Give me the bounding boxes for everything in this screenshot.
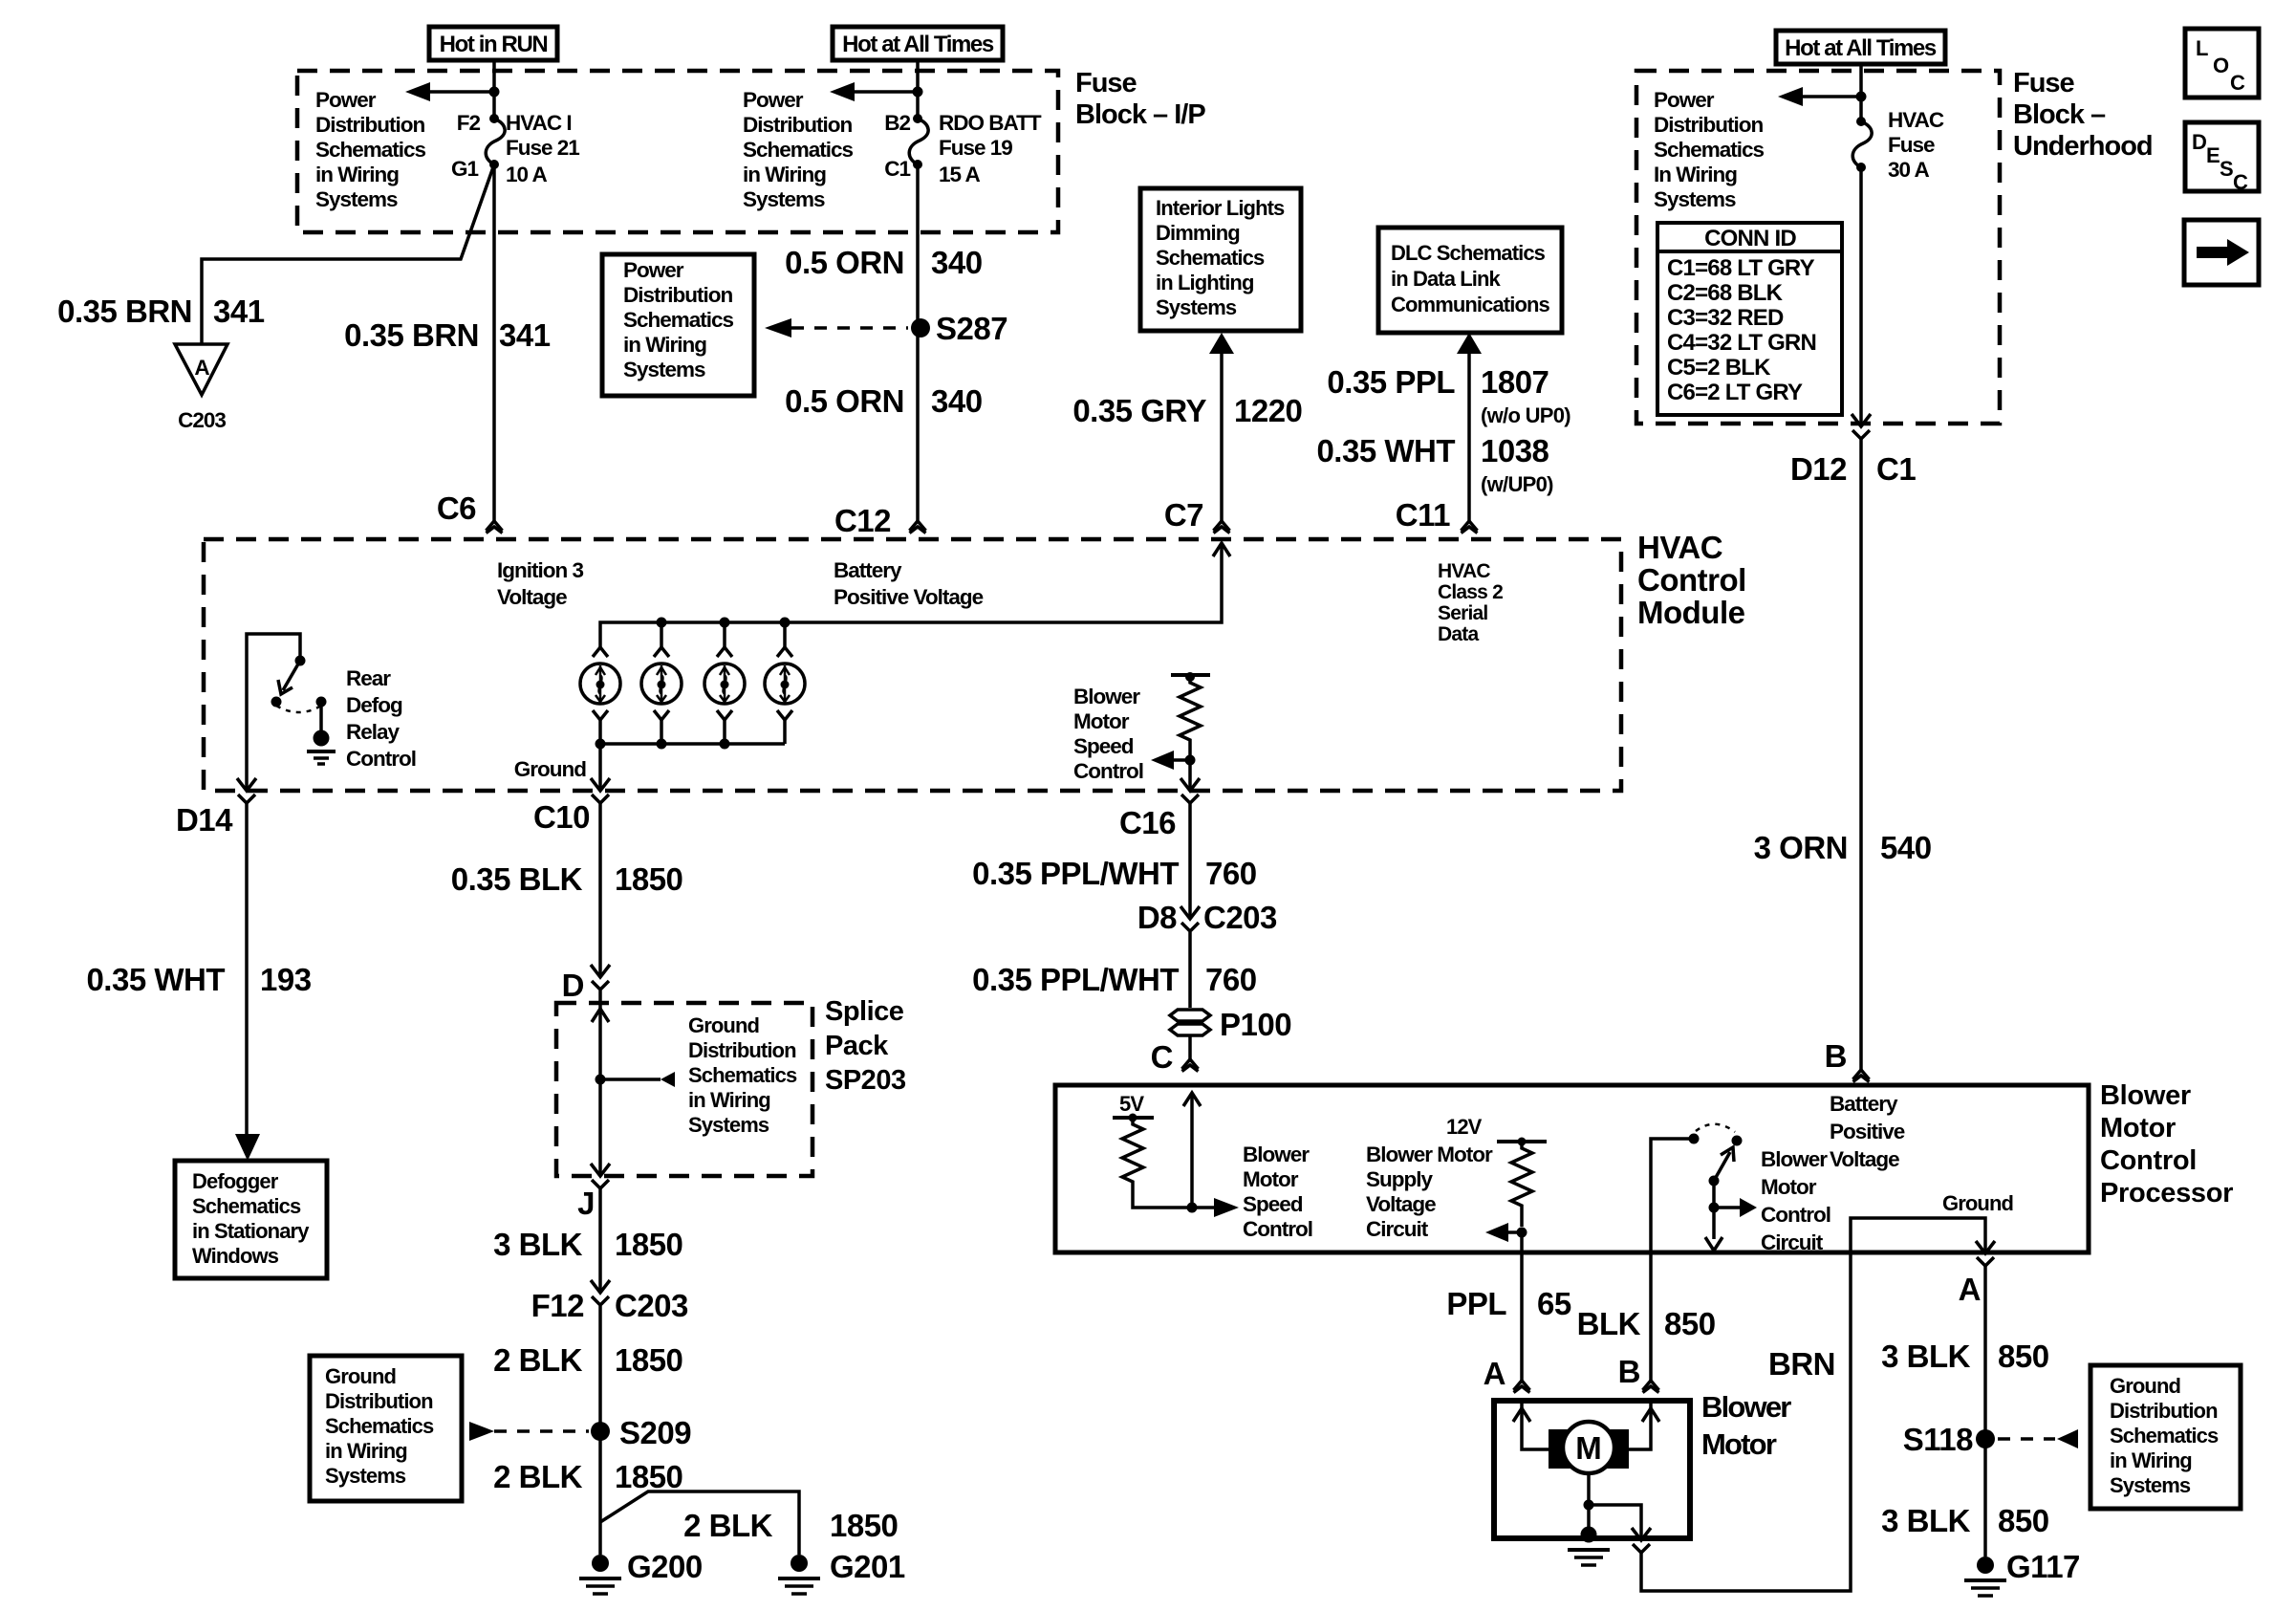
node bbox=[1517, 1228, 1527, 1238]
svg-text:340: 340 bbox=[931, 383, 983, 419]
svg-text:C6=2 LT GRY: C6=2 LT GRY bbox=[1667, 380, 1803, 405]
svg-text:Power: Power bbox=[623, 258, 684, 282]
wire down from hot box bbox=[1859, 64, 1863, 121]
svg-text:C: C bbox=[1151, 1039, 1173, 1075]
svg-text:Ground: Ground bbox=[688, 1013, 759, 1037]
wire through splice pack bbox=[598, 991, 602, 1176]
connector D12 C1 bbox=[1852, 414, 1871, 439]
svg-text:J: J bbox=[577, 1186, 595, 1221]
svg-text:C12: C12 bbox=[834, 503, 891, 538]
svg-text:0.35 PPL/WHT: 0.35 PPL/WHT bbox=[972, 856, 1179, 891]
svg-text:Blower: Blower bbox=[1761, 1147, 1828, 1171]
svg-text:Motor: Motor bbox=[1701, 1427, 1777, 1461]
svg-text:850: 850 bbox=[1664, 1306, 1716, 1341]
svg-text:HVAC I: HVAC I bbox=[506, 111, 572, 135]
svg-text:Module: Module bbox=[1637, 595, 1745, 630]
lamp 1 bbox=[593, 622, 792, 657]
node junction bbox=[1856, 92, 1867, 102]
svg-text:0.35 PPL/WHT: 0.35 PPL/WHT bbox=[972, 962, 1179, 997]
lamp bus bottom bbox=[600, 742, 785, 746]
power distribution reference box bbox=[602, 254, 754, 396]
label box "Hot at All Times" bbox=[1776, 31, 1945, 64]
svg-text:193: 193 bbox=[260, 962, 312, 997]
svg-text:Blower: Blower bbox=[2100, 1080, 2191, 1111]
svg-text:C2=68 BLK: C2=68 BLK bbox=[1667, 280, 1784, 306]
svg-text:C: C bbox=[2230, 71, 2245, 95]
wire arrow to power distribution bbox=[855, 90, 918, 94]
svg-text:Schematics: Schematics bbox=[325, 1414, 434, 1438]
svg-text:Battery: Battery bbox=[1830, 1092, 1898, 1116]
ground G201 bbox=[791, 1555, 808, 1572]
svg-text:HVAC: HVAC bbox=[1637, 530, 1722, 565]
node junction bbox=[913, 87, 923, 98]
svg-text:3 ORN: 3 ORN bbox=[1754, 830, 1848, 865]
switch contact right node bbox=[316, 697, 327, 708]
svg-text:in Wiring: in Wiring bbox=[325, 1439, 407, 1463]
svg-text:G200: G200 bbox=[627, 1549, 703, 1584]
svg-text:G1: G1 bbox=[451, 157, 479, 181]
motor ground wiring bbox=[1587, 1473, 1591, 1530]
svg-text:2 BLK: 2 BLK bbox=[683, 1508, 773, 1543]
svg-text:3 BLK: 3 BLK bbox=[493, 1227, 583, 1262]
svg-text:Supply: Supply bbox=[1366, 1167, 1433, 1191]
svg-text:Power: Power bbox=[315, 88, 377, 112]
svg-text:M: M bbox=[1575, 1430, 1602, 1466]
svg-text:Systems: Systems bbox=[1654, 187, 1736, 211]
svg-text:A: A bbox=[1959, 1272, 1981, 1307]
svg-text:Blower Motor: Blower Motor bbox=[1366, 1143, 1493, 1166]
ground inside module bbox=[319, 702, 323, 732]
wire down to C7 bbox=[1220, 354, 1224, 521]
node bbox=[1187, 1203, 1198, 1213]
svg-text:Schematics: Schematics bbox=[2110, 1424, 2219, 1448]
svg-text:5V: 5V bbox=[1119, 1092, 1144, 1116]
ground distribution box (S209) bbox=[310, 1356, 462, 1501]
label box "Hot at All Times" bbox=[833, 27, 1003, 60]
svg-text:BRN: BRN bbox=[1768, 1346, 1835, 1382]
node junction bbox=[489, 87, 500, 98]
svg-text:S: S bbox=[2220, 157, 2233, 181]
wire rear defog feed bbox=[247, 634, 300, 791]
svg-text:Serial: Serial bbox=[1438, 602, 1487, 624]
svg-text:A: A bbox=[194, 356, 209, 380]
ground G200 bbox=[592, 1555, 609, 1572]
arrow into box bbox=[1209, 333, 1234, 354]
connector J bbox=[591, 1164, 610, 1188]
ground G117 bbox=[1977, 1557, 1994, 1574]
svg-text:PPL: PPL bbox=[1446, 1286, 1506, 1321]
connector below motor bbox=[1632, 1528, 1651, 1553]
svg-text:0.35 BLK: 0.35 BLK bbox=[451, 861, 583, 897]
arrow into box bbox=[1457, 333, 1482, 354]
svg-text:540: 540 bbox=[1880, 830, 1932, 865]
svg-text:Ground: Ground bbox=[514, 757, 586, 781]
svg-text:S287: S287 bbox=[936, 311, 1007, 346]
bus junction nodes bbox=[657, 618, 667, 628]
svg-text:O: O bbox=[2213, 54, 2229, 77]
svg-text:2 BLK: 2 BLK bbox=[493, 1342, 583, 1378]
svg-text:0.35 GRY: 0.35 GRY bbox=[1072, 393, 1206, 428]
svg-text:B2: B2 bbox=[884, 111, 910, 135]
svg-text:C10: C10 bbox=[533, 799, 590, 835]
svg-text:Fuse 21: Fuse 21 bbox=[506, 136, 579, 160]
svg-text:Fuse: Fuse bbox=[1075, 68, 1137, 98]
svg-text:in Wiring: in Wiring bbox=[688, 1088, 770, 1112]
svg-text:C6: C6 bbox=[437, 490, 476, 526]
svg-text:Fuse: Fuse bbox=[1888, 133, 1935, 157]
grommet P100 bbox=[1170, 1010, 1210, 1021]
svg-text:Speed: Speed bbox=[1073, 734, 1134, 758]
svg-text:C4=32 LT GRN: C4=32 LT GRN bbox=[1667, 330, 1816, 356]
svg-text:Control: Control bbox=[1637, 562, 1746, 598]
svg-text:Systems: Systems bbox=[325, 1464, 406, 1488]
wire from Hot in RUN bbox=[492, 60, 496, 119]
svg-text:Systems: Systems bbox=[688, 1113, 769, 1137]
svg-text:1850: 1850 bbox=[615, 861, 682, 897]
lamp bus top bbox=[600, 543, 1222, 647]
svg-text:C203: C203 bbox=[615, 1288, 688, 1323]
connector C bbox=[1188, 1035, 1192, 1059]
svg-text:0.35 BRN: 0.35 BRN bbox=[344, 317, 479, 353]
svg-text:3 BLK: 3 BLK bbox=[1881, 1503, 1971, 1538]
wire main ignition down to C6 bbox=[492, 164, 496, 521]
svg-text:C11: C11 bbox=[1396, 497, 1450, 533]
svg-text:1807: 1807 bbox=[1481, 364, 1549, 400]
svg-text:Control: Control bbox=[1761, 1203, 1830, 1227]
svg-text:C1: C1 bbox=[884, 157, 910, 181]
svg-text:Communications: Communications bbox=[1391, 293, 1550, 316]
svg-text:Speed: Speed bbox=[1243, 1192, 1303, 1216]
svg-text:L: L bbox=[2196, 36, 2208, 60]
svg-text:Splice: Splice bbox=[825, 996, 904, 1027]
svg-text:Processor: Processor bbox=[2100, 1178, 2233, 1208]
wire down to C11 bbox=[1467, 354, 1471, 521]
fuse HVAC Fuse 30A bbox=[1856, 117, 1866, 126]
svg-text:Schematics: Schematics bbox=[688, 1063, 797, 1087]
svg-text:Schematics: Schematics bbox=[315, 138, 426, 162]
svg-text:Circuit: Circuit bbox=[1761, 1230, 1824, 1254]
fuse block I/P dashed box bbox=[297, 71, 1058, 232]
svg-text:Power: Power bbox=[1654, 88, 1715, 112]
connector A C203 triangle bbox=[175, 344, 227, 395]
arrow to power distribution bbox=[1803, 95, 1861, 98]
resistor 5V bbox=[1122, 1118, 1143, 1193]
wire arrow to power distribution bbox=[430, 90, 494, 94]
switch contact node bbox=[271, 697, 282, 708]
svg-text:G117: G117 bbox=[2006, 1549, 2080, 1584]
svg-text:C3=32 RED: C3=32 RED bbox=[1667, 305, 1784, 331]
branch wire to G201 bbox=[600, 1491, 799, 1555]
connector D8 C203 bbox=[1180, 906, 1200, 931]
svg-text:Distribution: Distribution bbox=[743, 113, 852, 137]
svg-text:Ground: Ground bbox=[1942, 1191, 2013, 1215]
node S209 bbox=[591, 1422, 610, 1441]
svg-text:Control: Control bbox=[1243, 1217, 1312, 1241]
svg-text:C7: C7 bbox=[1164, 497, 1203, 533]
svg-text:HVAC: HVAC bbox=[1438, 560, 1490, 582]
svg-text:C1: C1 bbox=[1876, 451, 1916, 487]
svg-text:B: B bbox=[1825, 1038, 1847, 1074]
svg-text:Voltage: Voltage bbox=[1366, 1192, 1436, 1216]
ground return wire to processor bbox=[1641, 1252, 1851, 1591]
svg-text:Systems: Systems bbox=[743, 187, 825, 211]
connector D bbox=[591, 965, 610, 990]
svg-text:Positive: Positive bbox=[1830, 1120, 1905, 1143]
svg-text:HVAC: HVAC bbox=[1888, 108, 1944, 132]
svg-text:Schematics: Schematics bbox=[623, 308, 734, 332]
CONN ID table bbox=[1657, 223, 1842, 415]
svg-text:Control: Control bbox=[1073, 759, 1143, 783]
svg-text:In Wiring: In Wiring bbox=[1654, 163, 1737, 186]
svg-text:850: 850 bbox=[1998, 1503, 2049, 1538]
svg-text:Systems: Systems bbox=[623, 358, 705, 381]
svg-text:0.35 WHT: 0.35 WHT bbox=[86, 962, 225, 997]
svg-text:1850: 1850 bbox=[615, 1227, 682, 1262]
svg-text:Blower: Blower bbox=[1243, 1143, 1310, 1166]
connector A (processor) bbox=[1976, 1241, 1995, 1266]
svg-text:Battery: Battery bbox=[834, 558, 902, 582]
svg-text:850: 850 bbox=[1998, 1339, 2049, 1374]
motor feed wires bbox=[1522, 1404, 1549, 1449]
svg-text:341: 341 bbox=[213, 294, 265, 329]
svg-text:Schematics: Schematics bbox=[743, 138, 854, 162]
svg-text:S118: S118 bbox=[1903, 1422, 1973, 1457]
svg-text:1220: 1220 bbox=[1234, 393, 1302, 428]
svg-text:341: 341 bbox=[499, 317, 551, 353]
svg-text:S209: S209 bbox=[619, 1415, 691, 1450]
svg-text:Distribution: Distribution bbox=[623, 283, 732, 307]
svg-text:D14: D14 bbox=[176, 802, 233, 838]
svg-text:Relay: Relay bbox=[346, 720, 401, 744]
svg-text:15 A: 15 A bbox=[939, 163, 980, 186]
svg-text:Systems: Systems bbox=[315, 187, 398, 211]
svg-text:30 A: 30 A bbox=[1888, 158, 1929, 182]
svg-text:Block –: Block – bbox=[2013, 99, 2106, 130]
svg-text:12V: 12V bbox=[1446, 1115, 1483, 1139]
svg-text:C203: C203 bbox=[1203, 900, 1277, 935]
svg-text:Underhood: Underhood bbox=[2013, 131, 2153, 162]
svg-text:Schematics: Schematics bbox=[192, 1194, 301, 1218]
svg-text:A: A bbox=[1484, 1356, 1505, 1391]
svg-text:(w/o UP0): (w/o UP0) bbox=[1481, 403, 1570, 427]
svg-text:Motor: Motor bbox=[1243, 1167, 1299, 1191]
svg-text:in Wiring: in Wiring bbox=[2110, 1448, 2192, 1472]
resistor 12V bbox=[1511, 1142, 1532, 1227]
svg-text:Power: Power bbox=[743, 88, 804, 112]
defogger schematics box bbox=[175, 1161, 327, 1278]
svg-text:P100: P100 bbox=[1220, 1007, 1291, 1042]
wire from Hot at All Times bbox=[916, 60, 920, 119]
svg-text:0.35 PPL: 0.35 PPL bbox=[1327, 364, 1455, 400]
svg-text:Class 2: Class 2 bbox=[1438, 581, 1503, 603]
dashed arrow to S209 bbox=[469, 1422, 494, 1441]
svg-text:760: 760 bbox=[1205, 856, 1257, 891]
svg-text:C1=68 LT GRY: C1=68 LT GRY bbox=[1667, 255, 1815, 281]
dashed arrow to S287 bbox=[765, 318, 791, 337]
svg-text:Schematics: Schematics bbox=[1654, 138, 1765, 162]
svg-text:Windows: Windows bbox=[192, 1244, 279, 1268]
svg-text:C5=2 BLK: C5=2 BLK bbox=[1667, 355, 1771, 381]
svg-text:0.35 BRN: 0.35 BRN bbox=[57, 294, 192, 329]
switch arm with arrowhead bbox=[283, 661, 300, 690]
svg-text:Voltage: Voltage bbox=[497, 585, 567, 609]
svg-text:in Wiring: in Wiring bbox=[743, 163, 826, 186]
svg-text:Systems: Systems bbox=[1156, 295, 1237, 319]
svg-text:Distribution: Distribution bbox=[1654, 113, 1763, 137]
svg-text:C16: C16 bbox=[1119, 805, 1176, 840]
svg-text:Blower: Blower bbox=[1701, 1390, 1791, 1424]
svg-text:Distribution: Distribution bbox=[315, 113, 424, 137]
dashed switch linkage arc bbox=[276, 706, 321, 712]
svg-text:1850: 1850 bbox=[615, 1342, 682, 1378]
svg-text:Systems: Systems bbox=[2110, 1473, 2191, 1497]
svg-text:Pack: Pack bbox=[825, 1031, 889, 1061]
arrow into defogger box bbox=[235, 1134, 260, 1161]
svg-text:in Data Link: in Data Link bbox=[1391, 267, 1502, 291]
svg-text:3 BLK: 3 BLK bbox=[1881, 1339, 1971, 1374]
svg-text:Fuse: Fuse bbox=[2013, 68, 2075, 98]
svg-text:Distribution: Distribution bbox=[688, 1038, 796, 1062]
connector D14 bbox=[237, 778, 256, 803]
svg-text:CONN ID: CONN ID bbox=[1704, 226, 1796, 251]
svg-text:0.5 ORN: 0.5 ORN bbox=[785, 245, 904, 280]
node S118 bbox=[1976, 1429, 1995, 1448]
svg-text:Motor: Motor bbox=[1073, 709, 1130, 733]
svg-text:Motor: Motor bbox=[2100, 1113, 2176, 1143]
svg-text:in Lighting: in Lighting bbox=[1156, 271, 1254, 294]
svg-text:Fuse 19: Fuse 19 bbox=[939, 136, 1012, 160]
ground distribution box (S118) bbox=[2090, 1365, 2241, 1509]
svg-text:Motor: Motor bbox=[1761, 1175, 1817, 1199]
svg-text:Data: Data bbox=[1438, 623, 1479, 645]
switch rear defog: pivot node bbox=[295, 656, 306, 666]
svg-text:C: C bbox=[2233, 170, 2248, 194]
svg-text:Ground: Ground bbox=[2110, 1374, 2180, 1398]
node S287 bbox=[911, 318, 930, 337]
svg-text:1038: 1038 bbox=[1481, 433, 1549, 468]
svg-text:F2: F2 bbox=[457, 111, 481, 135]
splice pack dashed box bbox=[556, 1003, 812, 1176]
connector C10 bbox=[591, 778, 610, 803]
svg-text:in Wiring: in Wiring bbox=[623, 333, 706, 357]
wire C into processor bbox=[1190, 1093, 1194, 1208]
svg-text:Rear: Rear bbox=[346, 666, 391, 690]
svg-text:65: 65 bbox=[1537, 1286, 1571, 1321]
wire from fuse 19 down bbox=[916, 164, 920, 521]
svg-text:D: D bbox=[2192, 130, 2206, 154]
svg-text:2 BLK: 2 BLK bbox=[493, 1459, 583, 1494]
switch blower voltage motor control bbox=[1689, 1134, 1700, 1144]
svg-text:0.5 ORN: 0.5 ORN bbox=[785, 383, 904, 419]
svg-text:Positive Voltage: Positive Voltage bbox=[834, 585, 984, 609]
svg-text:1850: 1850 bbox=[615, 1459, 682, 1494]
connector F12 C203 bbox=[591, 1280, 610, 1305]
wire down through box with arrow bbox=[1859, 167, 1863, 426]
svg-text:Defog: Defog bbox=[346, 693, 402, 717]
svg-text:D8: D8 bbox=[1137, 900, 1177, 935]
splice node bbox=[596, 1075, 606, 1085]
svg-text:RDO BATT: RDO BATT bbox=[939, 111, 1042, 135]
svg-text:F12: F12 bbox=[531, 1288, 585, 1323]
svg-text:10 A: 10 A bbox=[506, 163, 547, 186]
svg-text:BLK: BLK bbox=[1577, 1306, 1641, 1341]
svg-text:Distribution: Distribution bbox=[2110, 1399, 2218, 1423]
svg-text:Hot in RUN: Hot in RUN bbox=[440, 32, 548, 57]
svg-text:B: B bbox=[1618, 1354, 1640, 1389]
svg-text:760: 760 bbox=[1205, 962, 1257, 997]
svg-text:E: E bbox=[2206, 143, 2220, 167]
svg-text:Control: Control bbox=[346, 747, 416, 771]
svg-text:D12: D12 bbox=[1790, 451, 1847, 487]
label box "Hot in RUN" bbox=[429, 27, 557, 60]
svg-text:Block – I/P: Block – I/P bbox=[1075, 99, 1205, 130]
svg-text:Schematics: Schematics bbox=[1156, 246, 1265, 270]
case ground bbox=[1581, 1527, 1597, 1543]
svg-text:Distribution: Distribution bbox=[325, 1389, 433, 1413]
svg-text:(w/UP0): (w/UP0) bbox=[1481, 472, 1553, 496]
svg-text:in Wiring: in Wiring bbox=[315, 163, 399, 186]
svg-text:Control: Control bbox=[2100, 1145, 2197, 1176]
svg-text:Ground: Ground bbox=[325, 1364, 396, 1388]
svg-text:DLC Schematics: DLC Schematics bbox=[1391, 241, 1546, 265]
svg-text:Voltage: Voltage bbox=[1830, 1147, 1899, 1171]
svg-text:Circuit: Circuit bbox=[1366, 1217, 1429, 1241]
svg-text:Hot at All Times: Hot at All Times bbox=[1785, 35, 1937, 61]
svg-text:1850: 1850 bbox=[830, 1508, 898, 1543]
svg-text:Ignition 3: Ignition 3 bbox=[497, 558, 583, 582]
svg-text:Blower: Blower bbox=[1073, 685, 1140, 708]
svg-text:D: D bbox=[562, 968, 584, 1003]
svg-text:Defogger: Defogger bbox=[192, 1169, 279, 1193]
dashed box bbox=[1636, 71, 2000, 424]
svg-text:Dimming: Dimming bbox=[1156, 221, 1240, 245]
ground wire out bbox=[598, 744, 602, 791]
svg-text:in Stationary: in Stationary bbox=[192, 1219, 310, 1243]
svg-text:Interior Lights: Interior Lights bbox=[1156, 196, 1285, 220]
svg-text:340: 340 bbox=[931, 245, 983, 280]
motor M symbol bbox=[1549, 1429, 1571, 1469]
svg-text:SP203: SP203 bbox=[825, 1065, 906, 1096]
svg-text:Hot at All Times: Hot at All Times bbox=[842, 32, 994, 57]
svg-text:G201: G201 bbox=[830, 1549, 905, 1584]
wire diagonal from G1 to connector A bbox=[202, 164, 494, 344]
lamp bottom forks bbox=[593, 710, 792, 720]
blower motor speed control resistor (module) bbox=[1171, 673, 1210, 677]
svg-text:0.35 WHT: 0.35 WHT bbox=[1316, 433, 1455, 468]
svg-text:C203: C203 bbox=[178, 408, 226, 432]
